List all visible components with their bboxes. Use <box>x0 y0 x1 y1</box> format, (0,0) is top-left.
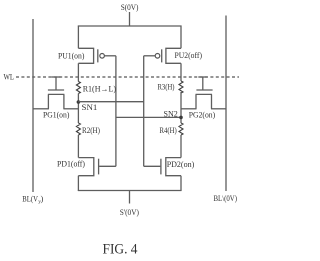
wire PD2 gate to cross-couple column <box>144 165 161 167</box>
svg-text:R3(H): R3(H) <box>158 83 175 92</box>
transistor PG1 channel <box>48 94 65 108</box>
wire PU2 gate to column <box>144 55 156 57</box>
svg-text:PG2(on): PG2(on) <box>189 110 216 119</box>
wire PU2 drain to R3 <box>180 63 182 81</box>
transistor PD2 gate bar <box>160 159 162 175</box>
svg-text:PG1(on): PG1(on) <box>43 111 70 120</box>
svg-text:PD1(off): PD1(off) <box>57 160 85 169</box>
bitline BLX <box>225 16 227 192</box>
transistor PD2 drain-source path <box>166 158 181 176</box>
wire PU1 drain to R1 <box>77 63 79 81</box>
wire PG2 to BLX <box>211 108 226 110</box>
node S supply stub <box>129 12 131 26</box>
wordline WL (dashed) <box>16 76 239 78</box>
transistor PU2 gate bar <box>161 49 163 62</box>
svg-text:WL: WL <box>4 73 15 82</box>
wire PD1 source to S' rail <box>77 176 79 191</box>
transistor PU2 source-drain path <box>166 48 181 63</box>
transistor PG1 gate stub <box>55 77 57 90</box>
svg-text:SN2: SN2 <box>164 110 178 119</box>
transistor PG1 gate bar <box>48 89 64 91</box>
transistor PD1 drain-source path <box>78 158 93 176</box>
wire S' rail <box>78 190 182 192</box>
transistor PD1 gate bar <box>98 159 100 175</box>
svg-text:BL\(0V): BL\(0V) <box>214 194 238 203</box>
transistor PU2 gate bubble <box>155 54 160 59</box>
bitline BL <box>32 19 34 192</box>
node SN2 <box>179 116 183 120</box>
transistor PG2 gate stub <box>202 77 204 90</box>
transistor PU1 source-drain path <box>78 48 93 63</box>
resistor R4 <box>179 123 183 135</box>
wire R1 to SN1 to R2 <box>77 94 79 124</box>
wire R3 to SN2 to R4 <box>180 92 182 123</box>
wire PD2 source to S' rail <box>180 176 182 191</box>
svg-text:S(0V): S(0V) <box>121 3 139 12</box>
resistor R1 <box>76 82 80 94</box>
wire column to SN2 <box>116 116 181 118</box>
wire SN1 cross-couple to right column <box>78 101 143 103</box>
transistor PG2 channel <box>196 94 213 108</box>
svg-text:SN1: SN1 <box>82 103 98 112</box>
wire PD1 gate to cross-couple column <box>99 165 116 167</box>
svg-text:R2(H): R2(H) <box>82 126 100 135</box>
wire R4 to PD2 drain <box>180 135 182 158</box>
wire PU1 gate to column <box>104 55 116 57</box>
wire PG1 to SN1 column <box>63 108 79 110</box>
wire cross-couple column left (to SN2, PD1 gate) <box>115 56 117 167</box>
transistor PG1 gate cap on WL <box>52 76 61 78</box>
svg-text:BL(V: BL(V <box>22 195 38 204</box>
svg-text:R4(H): R4(H) <box>160 126 177 135</box>
wire left column: S rail to PU1 source <box>77 26 79 49</box>
wire BL to PG1 <box>33 108 49 110</box>
wire right column: S rail to PU2 source <box>180 26 182 49</box>
svg-text:): ) <box>41 195 44 204</box>
node S' stub <box>129 191 131 204</box>
svg-text:S'(0V): S'(0V) <box>120 208 140 217</box>
transistor PG2 gate cap on WL <box>198 76 207 78</box>
resistor R2 <box>76 123 80 135</box>
resistor R3 <box>179 81 183 93</box>
wire R2 to PD1 drain <box>77 135 79 158</box>
transistor PU1 gate bubble <box>100 54 105 59</box>
wire cross-couple column right (to SN1, PD2 gate) <box>143 56 145 167</box>
transistor PU1 gate bar <box>97 49 99 62</box>
wire S rail <box>78 25 182 27</box>
wire SN2 column to PG2 <box>181 108 197 110</box>
svg-text:PU1(on): PU1(on) <box>58 52 85 61</box>
svg-text:PD2(on): PD2(on) <box>167 160 195 169</box>
transistor PG2 gate bar <box>196 89 212 91</box>
svg-text:R1(H→L): R1(H→L) <box>83 85 117 94</box>
node SN1 <box>77 100 81 104</box>
svg-text:PU2(off): PU2(off) <box>175 51 203 60</box>
svg-text:FIG. 4: FIG. 4 <box>103 242 138 258</box>
